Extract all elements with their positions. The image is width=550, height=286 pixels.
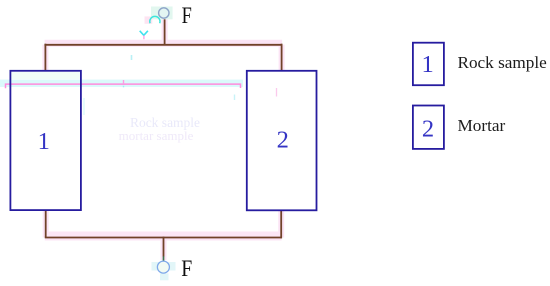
svg-text:mortar sample: mortar sample — [119, 128, 194, 143]
svg-text:Mortar: Mortar — [458, 116, 506, 135]
svg-text:1: 1 — [38, 128, 50, 155]
svg-text:2: 2 — [422, 116, 434, 143]
svg-text:F: F — [181, 256, 192, 281]
svg-text:2: 2 — [277, 127, 289, 154]
svg-text:Rock sample: Rock sample — [458, 53, 548, 72]
svg-text:F: F — [182, 3, 192, 28]
svg-text:1: 1 — [421, 51, 433, 78]
